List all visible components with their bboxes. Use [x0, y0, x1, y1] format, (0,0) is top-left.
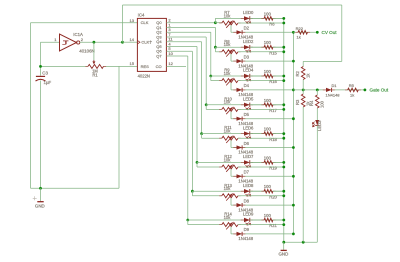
node input-R1 junction: [39, 65, 42, 68]
wire led to resistor: [250, 133, 264, 135]
svg-text:GND: GND: [279, 252, 289, 257]
wire diode line: [231, 60, 293, 62]
node wiper junction: [93, 41, 96, 44]
wire Q5 staircase to row6: [166, 46, 197, 48]
resistor R18 100: [261, 133, 264, 135]
wire pot to bus: [238, 108, 284, 110]
wire Q1 staircase to row2: [166, 26, 215, 28]
node gate out: [364, 89, 367, 92]
diode D7 1N4148: [233, 175, 236, 177]
wire Q0 to row1: [166, 22, 215, 24]
wire CO stub: [166, 65, 186, 67]
wire led to resistor: [250, 219, 264, 221]
resistor R4 100 vertical: [316, 90, 318, 95]
LED LED3 vertical: [315, 120, 319, 125]
node led line bus junction: [282, 75, 285, 78]
diode D6 1N4148: [233, 147, 236, 149]
wire C3 to ground: [40, 81, 42, 189]
wire input node vertical: [40, 42, 42, 75]
svg-text:4022N: 4022N: [138, 74, 150, 79]
wire row2 drop to pot: [214, 47, 216, 52]
resistor R20 100: [261, 190, 264, 192]
svg-text:12: 12: [168, 61, 173, 66]
node bottom bus mid: [302, 241, 305, 244]
svg-text:10k: 10k: [224, 186, 232, 191]
wire pot to bus: [238, 80, 284, 82]
node row1 junction: [214, 21, 217, 24]
svg-text:10k: 10k: [224, 100, 232, 105]
svg-text:10: 10: [168, 51, 173, 56]
svg-text:100: 100: [264, 155, 272, 160]
node led line bus junction: [282, 103, 285, 106]
svg-text:R5: R5: [349, 83, 355, 88]
svg-text:D5: D5: [244, 112, 250, 117]
wire led to resistor: [250, 104, 264, 106]
svg-text:GND: GND: [35, 204, 45, 209]
svg-text:R17: R17: [269, 108, 277, 113]
node diode bus junction: [292, 175, 295, 178]
wire pot to bus: [238, 22, 284, 24]
wire row3 led line: [211, 75, 284, 77]
node bottom bus left: [282, 241, 285, 244]
svg-text:100: 100: [264, 184, 272, 189]
svg-text:15: 15: [130, 61, 135, 66]
wire led to resistor: [250, 17, 264, 19]
node diode bus junction: [292, 60, 295, 63]
svg-text:10k: 10k: [224, 13, 232, 18]
svg-text:100: 100: [264, 127, 272, 132]
wire pot to bus: [238, 166, 284, 168]
diode D5 1N4148: [233, 118, 236, 120]
svg-text:100: 100: [264, 69, 272, 74]
node led line bus junction: [282, 17, 285, 20]
svg-text:14: 14: [130, 37, 135, 42]
diode D2 1N4148: [233, 31, 236, 33]
svg-text:D6: D6: [244, 141, 250, 146]
wire clock rail up: [122, 5, 124, 42]
svg-text:D2: D2: [244, 26, 250, 31]
wire row4 drop to pot: [205, 105, 207, 110]
svg-text:100: 100: [264, 40, 272, 45]
svg-text:1µF: 1µF: [44, 80, 52, 85]
wire led to resistor: [250, 46, 264, 48]
potentiometer R12 10k: [219, 166, 222, 168]
wire LED3 to ground bus: [316, 125, 318, 242]
wire bottom-left ground bus: [31, 187, 120, 189]
node diode bus junction: [292, 117, 295, 120]
wire clock to IC4 pin14: [123, 41, 138, 43]
LED LED6: [241, 133, 244, 135]
svg-text:40106N: 40106N: [79, 49, 94, 54]
op-amp IC1A schmitt inverter: [60, 34, 77, 51]
wire top supply rail: [123, 4, 342, 6]
svg-text:1N4148: 1N4148: [238, 236, 253, 241]
wire row6 led line: [197, 161, 284, 163]
svg-text:D1: D1: [332, 83, 337, 88]
node gate R4 junction: [316, 89, 319, 92]
wire diode line: [231, 31, 293, 33]
potentiometer R9 10k: [219, 80, 222, 82]
wire led to resistor: [250, 190, 264, 192]
svg-text:D7: D7: [244, 170, 250, 175]
wire led to resistor: [250, 161, 264, 163]
wire resistor to bus: [273, 161, 284, 163]
wire diode line: [231, 89, 293, 91]
wire right rail down: [341, 5, 343, 61]
potentiometer R14 10k: [219, 224, 222, 226]
resistor R1 trimmer 1M: [85, 65, 88, 67]
svg-text:1k: 1k: [306, 73, 311, 78]
svg-text:IC4: IC4: [138, 12, 145, 17]
node CV out: [316, 31, 319, 34]
resistor R16 100: [261, 75, 264, 77]
wire Q2 staircase to row3: [166, 31, 210, 33]
wire input to inverter: [41, 41, 60, 43]
LED LED7: [241, 161, 244, 163]
wire resistor to bus: [273, 17, 284, 19]
wire pin13 ground rail horizontal: [31, 22, 138, 24]
wire reset pin15 horizontal: [104, 65, 138, 67]
svg-text:13: 13: [130, 18, 135, 23]
node pot line bus junction: [282, 50, 285, 53]
svg-text:CO: CO: [156, 64, 162, 69]
node led line bus junction: [282, 161, 285, 164]
node led line bus junction: [282, 46, 285, 49]
svg-text:CLK: CLK: [141, 40, 149, 45]
node gate R2 junction: [302, 89, 305, 92]
wire row4 led line: [206, 104, 284, 106]
svg-text:10k: 10k: [224, 71, 232, 76]
resistor R2 1k vertical: [302, 61, 304, 66]
wire wiper drop: [230, 198, 232, 205]
LED LED4: [241, 75, 244, 77]
svg-text:100: 100: [264, 213, 272, 218]
svg-text:LED4: LED4: [243, 68, 254, 73]
svg-text:D4: D4: [244, 83, 250, 88]
wire resistor to bus: [273, 104, 284, 106]
wire wiper drop: [230, 169, 232, 176]
wire left ground rail vertical: [30, 23, 32, 189]
wire resistor to bus: [273, 133, 284, 135]
wire wiper drop: [230, 112, 232, 119]
svg-text:R18: R18: [269, 137, 277, 142]
node row3 junction: [209, 75, 212, 78]
wire Q7 staircase to row8: [166, 55, 187, 57]
wire resistor to bus: [273, 190, 284, 192]
wire diode line: [231, 233, 293, 235]
svg-text:LED2: LED2: [243, 39, 254, 44]
node diode bus junction: [292, 31, 295, 34]
node row7 junction: [191, 190, 194, 193]
node row8 junction: [186, 219, 189, 222]
svg-text:R6: R6: [269, 22, 275, 27]
potentiometer R8 10k: [219, 51, 222, 53]
wire row5 drop to pot: [201, 134, 203, 139]
node diode bus junction: [292, 233, 295, 236]
resistor R19 100: [261, 161, 264, 163]
svg-text:R2: R2: [295, 70, 300, 76]
svg-text:CV Out: CV Out: [322, 30, 338, 35]
svg-text:R22: R22: [296, 26, 304, 31]
node diode bus junction: [292, 146, 295, 149]
resistor R6 100: [261, 17, 264, 19]
node clock junction: [121, 41, 124, 44]
svg-text:Q7: Q7: [156, 53, 162, 58]
node pot line bus junction: [282, 79, 285, 82]
svg-text:LED9: LED9: [243, 212, 254, 217]
wire row2 led line: [215, 46, 283, 48]
wire pot to bus: [238, 195, 284, 197]
node row2 junction: [214, 46, 217, 49]
wire wiper drop: [230, 227, 232, 234]
svg-text:R20: R20: [269, 194, 277, 199]
wire diode line: [231, 204, 293, 206]
svg-text:D8: D8: [244, 198, 250, 203]
wire pot to bus: [238, 224, 284, 226]
wire row7 drop to pot: [191, 191, 193, 196]
wire diode line: [231, 175, 293, 177]
svg-text:R21: R21: [269, 223, 277, 228]
node diode bus junction: [292, 204, 295, 207]
node diode bus junction: [292, 89, 295, 92]
svg-text:R15: R15: [269, 50, 277, 55]
resistor R21 100: [261, 219, 264, 221]
wire row7 led line: [192, 190, 283, 192]
capacitor C3: [36, 75, 45, 77]
LED LED8: [241, 190, 244, 192]
wire row6 drop to pot: [196, 162, 198, 167]
node pot line bus junction: [282, 22, 285, 25]
ground GND1: [40, 188, 42, 201]
svg-text:2: 2: [81, 37, 84, 42]
node row4 junction: [205, 103, 208, 106]
svg-text:1N4148: 1N4148: [326, 93, 341, 98]
wire bottom ground bus: [284, 241, 318, 243]
wire resistor to bus: [273, 46, 284, 48]
node led line bus junction: [282, 219, 285, 222]
svg-text:100: 100: [264, 98, 272, 103]
node pot line bus junction: [282, 194, 285, 197]
svg-text:R1: R1: [92, 73, 98, 78]
resistor R22 1k: [295, 31, 298, 33]
svg-text:D9: D9: [244, 227, 250, 232]
svg-text:100: 100: [320, 100, 325, 108]
wire row5 led line: [202, 133, 284, 135]
potentiometer R7 10k: [219, 22, 222, 24]
wire bus ground-return vertical: [283, 18, 285, 242]
wire R1 feedback horizontal: [41, 65, 89, 67]
wire rail to R2: [303, 60, 342, 62]
wire pot to bus: [238, 137, 284, 139]
node row6 junction: [196, 161, 199, 164]
resistor R5 1k: [345, 89, 348, 91]
wire diode line: [231, 118, 293, 120]
node pot line bus junction: [282, 137, 285, 140]
node C3 ground junction: [39, 187, 42, 190]
diode D9 1N4148: [233, 233, 236, 235]
wire CV out line: [293, 31, 317, 33]
wire Q6 staircase to row7: [166, 50, 192, 52]
node led line bus junction: [282, 190, 285, 193]
wire row3 drop to pot: [210, 76, 212, 81]
wire gate line: [293, 89, 365, 91]
wire row1 led line: [215, 17, 283, 19]
resistor R3 1k vertical: [302, 90, 304, 94]
svg-text:10k: 10k: [224, 157, 232, 162]
potentiometer R13 10k: [219, 195, 222, 197]
node pot line bus junction: [282, 166, 285, 169]
wire Q4 staircase to row5: [166, 41, 201, 43]
LED LED9: [241, 219, 244, 221]
IC IC4 4022N counter: [137, 18, 166, 71]
node led line bus junction: [282, 132, 285, 135]
wire wiper drop: [230, 25, 232, 32]
wire Q3 staircase to row4: [166, 36, 206, 38]
LED LED0: [241, 17, 244, 19]
svg-text:R4: R4: [309, 100, 314, 106]
diode D8 1N4148: [233, 204, 236, 206]
svg-text:10k: 10k: [224, 42, 232, 47]
wire reset rail vertical: [118, 66, 120, 188]
diode D3 1N4148: [233, 60, 236, 62]
wire row1 riser: [214, 18, 216, 22]
wire diode line: [231, 147, 293, 149]
svg-text:Gate Out: Gate Out: [370, 88, 389, 93]
svg-text:LED8: LED8: [243, 183, 254, 188]
potentiometer R11 10k: [219, 137, 222, 139]
diode D4 1N4148: [233, 89, 236, 91]
svg-text:10k: 10k: [224, 129, 232, 134]
LED LED5: [241, 104, 244, 106]
wire wiper drop: [230, 140, 232, 147]
wire row8 drop to pot: [187, 220, 189, 225]
svg-text:1k: 1k: [297, 35, 301, 40]
svg-text:C3: C3: [42, 71, 48, 76]
wire bus CV diode-or vertical: [292, 32, 294, 234]
node pot line bus junction: [282, 223, 285, 226]
resistor R17 100: [261, 104, 264, 106]
svg-text:1k: 1k: [350, 92, 354, 97]
LED LED2: [241, 46, 244, 48]
wire pot to bus: [238, 51, 284, 53]
diode D1 1N4148 gate: [323, 89, 326, 91]
wire row1 pot line: [215, 22, 221, 24]
svg-text:R3: R3: [295, 99, 300, 105]
svg-text:CLK: CLK: [141, 20, 149, 25]
wire row8 led line: [188, 219, 284, 221]
svg-text:D3: D3: [244, 54, 250, 59]
svg-text:R19: R19: [269, 166, 277, 171]
potentiometer R10 10k: [219, 108, 222, 110]
ground GND2: [283, 242, 285, 250]
wire wiper drop: [230, 54, 232, 61]
svg-text:LED7: LED7: [243, 154, 254, 159]
svg-text:R16: R16: [269, 79, 277, 84]
svg-text:1: 1: [54, 37, 57, 42]
resistor R15 100: [261, 46, 264, 48]
wire resistor to bus: [273, 75, 284, 77]
svg-text:LED0: LED0: [243, 10, 254, 15]
wire resistor to bus: [273, 219, 284, 221]
svg-text:RES: RES: [141, 64, 150, 69]
svg-text:LED5: LED5: [243, 97, 254, 102]
node row5 junction: [200, 132, 203, 135]
node pot line bus junction: [282, 108, 285, 111]
svg-text:100: 100: [264, 11, 272, 16]
wire led to resistor: [250, 75, 264, 77]
wire wiper drop: [230, 83, 232, 90]
wire inverter output: [80, 41, 123, 43]
svg-text:10k: 10k: [224, 215, 232, 220]
svg-text:LED6: LED6: [243, 125, 254, 130]
